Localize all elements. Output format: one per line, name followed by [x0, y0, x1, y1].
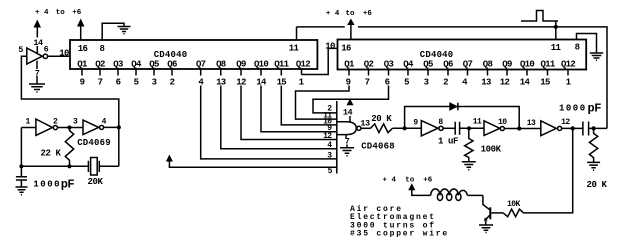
wire CD4068 pin 7: [346, 135, 347, 148]
svg-text:10: 10: [325, 41, 335, 51]
wire U1A out to U1B: [58, 127, 83, 129]
diode D1: [450, 103, 457, 110]
svg-text:Q9: Q9: [502, 59, 512, 69]
svg-text:1000: 1000: [559, 104, 587, 114]
ground (100K): [462, 162, 476, 170]
wire chip1 Q9 pin12 to CD4068 in12: [241, 86, 337, 140]
svg-text:Q3: Q3: [384, 59, 394, 69]
wire U2B out to U2C: [505, 128, 541, 130]
wire CD4068 output to 20K: [361, 127, 370, 129]
capacitor 1000pF (left): [16, 166, 27, 186]
power arrow (CD4068 in5 rail): [166, 155, 173, 162]
ground (CD4068 pin7): [340, 148, 354, 156]
svg-text:Q10: Q10: [520, 59, 534, 69]
svg-text:pF: pF: [61, 177, 75, 191]
wire U1C input feedback from U1B output: [21, 56, 118, 127]
svg-text:4: 4: [198, 78, 204, 88]
svg-text:14: 14: [343, 108, 353, 118]
node 100K junction: [467, 126, 471, 130]
node rail left: [19, 164, 23, 168]
svg-text:Q1: Q1: [77, 59, 88, 69]
svg-text:14: 14: [256, 78, 267, 88]
svg-text:Q11: Q11: [540, 59, 555, 69]
gate U2 CD4068 input bar: [336, 101, 338, 174]
inductor L1 air-core electromagnet coil: [431, 189, 468, 195]
wire chip2 pin 11 up: [555, 21, 557, 40]
svg-text:+ 4: + 4: [383, 176, 397, 184]
svg-text:Q6: Q6: [167, 59, 177, 69]
svg-text:Q8: Q8: [216, 59, 226, 69]
svg-text:Q4: Q4: [403, 59, 414, 69]
ground (emitter): [479, 225, 493, 233]
svg-text:Q5: Q5: [149, 59, 159, 69]
svg-text:8: 8: [99, 44, 104, 54]
svg-text:+6: +6: [72, 9, 82, 17]
wire 10K to base: [491, 212, 503, 214]
wire chip1 Q12 pin1 to chip2 pin10: [302, 48, 338, 74]
svg-text:7: 7: [345, 136, 350, 146]
wire U1C output to CD4040#1 pin10: [48, 55, 70, 57]
svg-text:15: 15: [540, 78, 550, 88]
svg-text:100K: 100K: [481, 144, 502, 154]
IC U1 box CD4040 #1: [70, 40, 317, 69]
pulse waveform symbol: [521, 11, 558, 22]
svg-text:Q12: Q12: [561, 59, 575, 69]
wire chip1 Q7 pin4 to CD4068 in3: [201, 86, 337, 159]
power arrow +4to+6 (chip1 pin 16): [80, 27, 82, 41]
svg-text:1: 1: [299, 78, 305, 88]
svg-text:14: 14: [520, 78, 531, 88]
wire 20K to U2A input: [393, 127, 422, 129]
svg-text:8: 8: [575, 42, 580, 52]
svg-text:Q1: Q1: [344, 59, 355, 69]
svg-text:#35 copper wire: #35 copper wire: [350, 230, 449, 239]
ground (1000pF): [16, 187, 28, 195]
svg-text:Q6: Q6: [443, 59, 453, 69]
wire feedback line with diode: [405, 107, 520, 129]
svg-text:11: 11: [473, 117, 482, 126]
svg-text:to: to: [405, 176, 415, 184]
wire clock line to both pin 11 and right side: [297, 27, 608, 128]
svg-text:Q9: Q9: [236, 59, 246, 69]
power arrow (+4to+6 electromagnet): [408, 183, 415, 190]
transistor Q1 emitter with arrow: [486, 215, 490, 219]
IC U3 box CD4040 #2: [338, 40, 587, 70]
svg-text:16: 16: [78, 44, 88, 54]
node feedback left: [403, 126, 407, 130]
svg-text:13: 13: [216, 78, 226, 88]
wire base drive down to 10K: [524, 128, 573, 213]
wire chip1 Q8 pin13 to CD4068 in4: [221, 86, 337, 149]
wire cap to clock vertical: [589, 127, 607, 129]
gate U2 CD4068 body: [337, 122, 357, 135]
svg-text:16: 16: [341, 43, 351, 53]
svg-text:3: 3: [424, 78, 429, 88]
wire rail right to U1B out: [99, 165, 119, 167]
node 20K right junction: [592, 126, 596, 130]
svg-text:Q3: Q3: [113, 59, 123, 69]
svg-text:+6: +6: [423, 176, 433, 184]
svg-text:5: 5: [328, 167, 333, 176]
wire U1C pin 7 to ground: [36, 61, 38, 84]
svg-text:Q2: Q2: [364, 59, 374, 69]
svg-text:11: 11: [551, 43, 562, 53]
svg-text:20 K: 20 K: [371, 114, 392, 124]
resistor 100K to ground: [465, 128, 473, 161]
svg-text:9: 9: [413, 118, 418, 127]
ground (chip2 pin8): [590, 53, 603, 60]
svg-text:Q7: Q7: [463, 59, 473, 69]
svg-text:10K: 10K: [507, 200, 521, 209]
wire chip2 pin 8 to ground: [577, 34, 597, 53]
wire collector from coil: [483, 195, 490, 209]
svg-text:1 uF: 1 uF: [438, 137, 458, 147]
svg-text:5: 5: [18, 45, 23, 55]
resistor 10K: [503, 209, 523, 217]
svg-text:7: 7: [365, 78, 370, 88]
svg-text:2: 2: [443, 78, 448, 88]
inverter U2B (11->10): [484, 121, 500, 136]
svg-text:Q2: Q2: [95, 59, 105, 69]
svg-text:Q12: Q12: [296, 59, 310, 69]
svg-text:9: 9: [80, 78, 85, 88]
svg-text:10: 10: [59, 48, 69, 58]
resistor 22K vertical: [65, 128, 73, 167]
wire chip1 Q11 pin15 to CD4068 in10: [281, 86, 337, 125]
svg-text:8: 8: [438, 118, 443, 127]
svg-text:Q11: Q11: [274, 59, 289, 69]
svg-text:13: 13: [527, 119, 536, 128]
node U1B output: [117, 125, 121, 129]
svg-text:+ 4: + 4: [326, 10, 340, 18]
svg-text:to: to: [346, 10, 356, 18]
node clock junction: [554, 25, 558, 29]
svg-text:10: 10: [498, 118, 507, 127]
svg-text:Q8: Q8: [483, 59, 493, 69]
svg-text:7: 7: [98, 78, 103, 88]
wire U1B out node / down to rail: [104, 127, 119, 166]
wire chip1 pin 11 up: [296, 27, 298, 40]
node base drive: [571, 126, 575, 130]
ground (U1C pin7): [29, 84, 45, 92]
wire chip2 Q3 pin6 to CD4068 in2: [313, 86, 389, 113]
wire chip2 Q1 pin9 to CD4068 in11: [296, 86, 350, 120]
ground (20K right): [587, 162, 600, 170]
svg-text:Q5: Q5: [423, 59, 433, 69]
svg-text:13: 13: [481, 78, 491, 88]
wire bottom rail left: [21, 165, 88, 167]
svg-text:12: 12: [561, 118, 570, 127]
inverter U1A (1->2): [36, 119, 53, 135]
svg-text:11: 11: [289, 43, 300, 53]
inverter U2C (13->12): [541, 121, 556, 136]
svg-text:CD4068: CD4068: [361, 142, 395, 152]
power arrow +4to+6 (chip2 pin 16): [350, 25, 352, 40]
crystal/resonator 20K element: [88, 161, 99, 172]
svg-text:1000: 1000: [33, 179, 61, 189]
svg-text:4: 4: [102, 118, 107, 127]
svg-text:15: 15: [277, 78, 287, 88]
wire chip1 pin 8 to ground: [102, 23, 124, 40]
svg-text:Q10: Q10: [254, 59, 268, 69]
svg-text:14: 14: [33, 38, 43, 48]
svg-text:6: 6: [44, 45, 49, 55]
resistor 20K (after CD4068): [371, 124, 393, 133]
svg-text:to: to: [56, 9, 66, 17]
svg-text:6: 6: [385, 78, 390, 88]
node 22K top: [67, 125, 71, 129]
inverter U1B (3->4): [83, 120, 99, 135]
wire chip1 output pin stubs Q1-Q6: [82, 69, 172, 76]
resistor 20K (right) to ground: [589, 128, 597, 162]
op-amp/inverter U1C (CD4069 5->6): [27, 48, 43, 64]
svg-text:12: 12: [323, 132, 332, 141]
wire pin14 stem to inverter: [36, 46, 38, 54]
svg-text:1: 1: [566, 78, 572, 88]
capacitor 1000pF (right): [583, 122, 589, 136]
svg-text:pF: pF: [588, 102, 602, 116]
wire U2C out to cap: [562, 127, 582, 129]
node feedback right: [517, 126, 521, 130]
wire chip1 Q10 pin14 to CD4068 in9: [261, 86, 337, 132]
inverter U2A (9->8): [421, 121, 438, 136]
svg-text:12: 12: [236, 78, 246, 88]
svg-text:+6: +6: [363, 10, 373, 18]
svg-text:13: 13: [360, 118, 370, 128]
svg-text:+ 4: + 4: [35, 9, 49, 17]
svg-text:Q7: Q7: [196, 59, 206, 69]
ground (chip1 pin8): [118, 27, 131, 34]
svg-text:CD4069: CD4069: [77, 138, 111, 148]
svg-text:12: 12: [500, 78, 510, 88]
svg-text:4: 4: [462, 78, 468, 88]
svg-text:9: 9: [346, 78, 351, 88]
wire cap to U2B input: [460, 127, 484, 129]
power arrow (CD4068 pin 14): [347, 99, 354, 106]
svg-text:2: 2: [53, 118, 58, 127]
wire U2A out to cap 1uF: [443, 127, 455, 129]
svg-text:20K: 20K: [87, 177, 103, 187]
wire chip1 output pin stubs Q7-Q12: [201, 69, 302, 76]
svg-text:1: 1: [26, 118, 31, 127]
svg-text:Q4: Q4: [131, 59, 142, 69]
svg-text:7: 7: [35, 69, 40, 79]
svg-text:6: 6: [116, 78, 121, 88]
svg-text:5: 5: [404, 78, 409, 88]
svg-text:20 K: 20 K: [586, 180, 607, 190]
wire coil to collector: [467, 194, 483, 196]
svg-text:3: 3: [152, 78, 157, 88]
svg-text:3: 3: [73, 118, 78, 127]
capacitor 1uF: [455, 122, 459, 135]
svg-text:5: 5: [134, 78, 139, 88]
svg-text:2: 2: [170, 78, 175, 88]
node rail 22K: [67, 164, 71, 168]
power arrow +4to+6 (U1C pin 14): [36, 27, 38, 38]
oscillator: wire input U1A: [21, 128, 36, 167]
wire chip2 output pin stubs: [349, 70, 568, 76]
transistor Q1 bar: [489, 207, 491, 219]
svg-text:22 K: 22 K: [40, 148, 61, 158]
